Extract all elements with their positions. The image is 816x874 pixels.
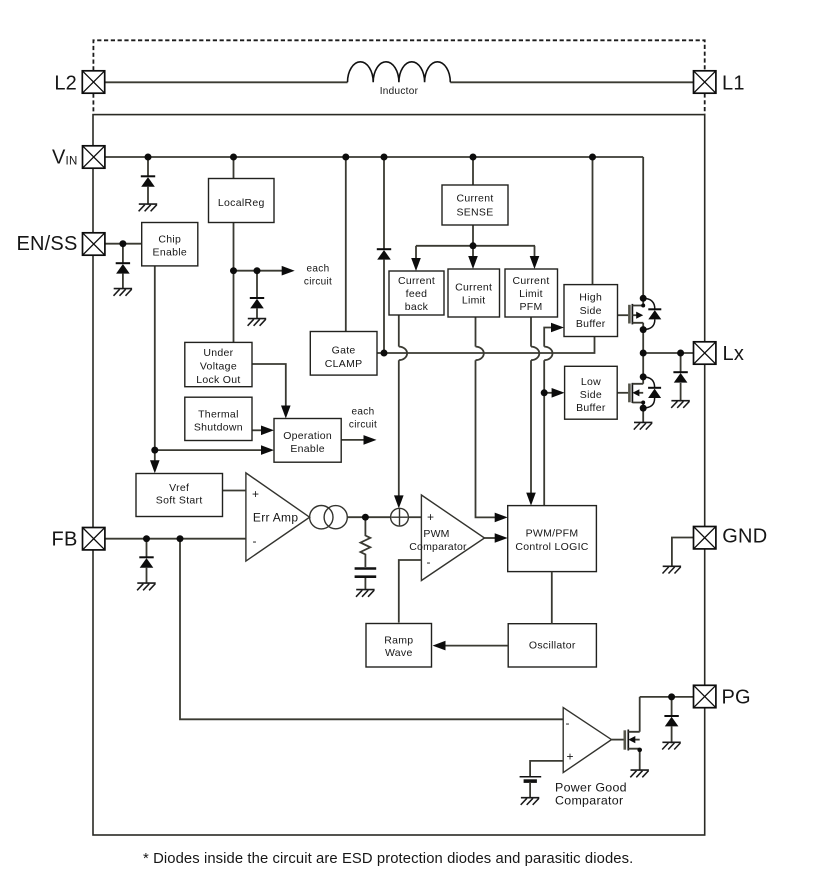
svg-text:Comparator: Comparator xyxy=(409,541,467,553)
svg-text:Low: Low xyxy=(581,376,601,388)
svg-text:Voltage: Voltage xyxy=(200,361,237,373)
svg-text:+: + xyxy=(252,487,259,501)
svg-text:Enable: Enable xyxy=(153,247,188,259)
svg-text:Vref: Vref xyxy=(169,482,189,494)
svg-text:Ramp: Ramp xyxy=(384,634,413,646)
svg-text:circuit: circuit xyxy=(304,277,332,288)
svg-text:PWM/PFM: PWM/PFM xyxy=(526,528,579,540)
svg-text:Current: Current xyxy=(456,193,493,205)
svg-text:Lx: Lx xyxy=(723,343,745,365)
svg-text:Side: Side xyxy=(580,389,602,401)
svg-text:Power Good: Power Good xyxy=(555,781,627,795)
svg-text:Comparator: Comparator xyxy=(555,794,623,808)
svg-text:Err Amp: Err Amp xyxy=(253,511,298,525)
svg-text:EN/SS: EN/SS xyxy=(16,233,77,255)
svg-text:circuit: circuit xyxy=(349,420,377,431)
svg-text:Lock Out: Lock Out xyxy=(196,374,240,386)
svg-text:Current: Current xyxy=(512,275,549,287)
svg-text:each: each xyxy=(352,407,375,418)
svg-text:PWM: PWM xyxy=(423,528,449,540)
svg-text:Inductor: Inductor xyxy=(380,86,419,97)
svg-text:Thermal: Thermal xyxy=(198,409,239,421)
svg-text:Current: Current xyxy=(398,275,435,287)
svg-text:Oscillator: Oscillator xyxy=(529,639,576,651)
svg-text:PFM: PFM xyxy=(519,301,542,313)
svg-text:each: each xyxy=(307,264,330,275)
svg-text:-: - xyxy=(427,555,431,569)
svg-text:Buffer: Buffer xyxy=(576,402,606,414)
svg-text:Enable: Enable xyxy=(290,443,325,455)
svg-text:Under: Under xyxy=(203,347,233,359)
svg-text:Buffer: Buffer xyxy=(576,318,606,330)
svg-text:High: High xyxy=(579,292,602,304)
svg-text:Current: Current xyxy=(455,282,492,294)
svg-text:LocalReg: LocalReg xyxy=(218,197,265,209)
svg-text:-: - xyxy=(253,534,257,548)
svg-text:FB: FB xyxy=(52,529,78,551)
svg-text:CLAMP: CLAMP xyxy=(325,358,363,370)
svg-text:GND: GND xyxy=(722,526,767,548)
svg-text:Limit: Limit xyxy=(462,295,486,307)
svg-text:feed: feed xyxy=(406,288,428,300)
svg-text:+: + xyxy=(427,510,434,524)
svg-text:SENSE: SENSE xyxy=(456,207,493,219)
svg-text:Wave: Wave xyxy=(385,647,413,659)
svg-text:Operation: Operation xyxy=(283,430,332,442)
svg-text:+: + xyxy=(567,750,574,764)
svg-text:PG: PG xyxy=(722,687,751,709)
svg-text:back: back xyxy=(405,301,429,313)
svg-text:Limit: Limit xyxy=(519,288,543,300)
svg-text:Soft Start: Soft Start xyxy=(156,495,203,507)
svg-text:-: - xyxy=(566,716,570,730)
svg-text:* Diodes inside the circuit ar: * Diodes inside the circuit are ESD prot… xyxy=(143,851,633,867)
svg-text:Side: Side xyxy=(580,305,602,317)
svg-text:L2: L2 xyxy=(54,72,77,94)
svg-text:Gate: Gate xyxy=(332,345,356,357)
svg-text:Control LOGIC: Control LOGIC xyxy=(515,541,588,553)
svg-text:L1: L1 xyxy=(722,72,745,94)
svg-text:Shutdown: Shutdown xyxy=(194,422,243,434)
svg-text:Chip: Chip xyxy=(158,234,181,246)
